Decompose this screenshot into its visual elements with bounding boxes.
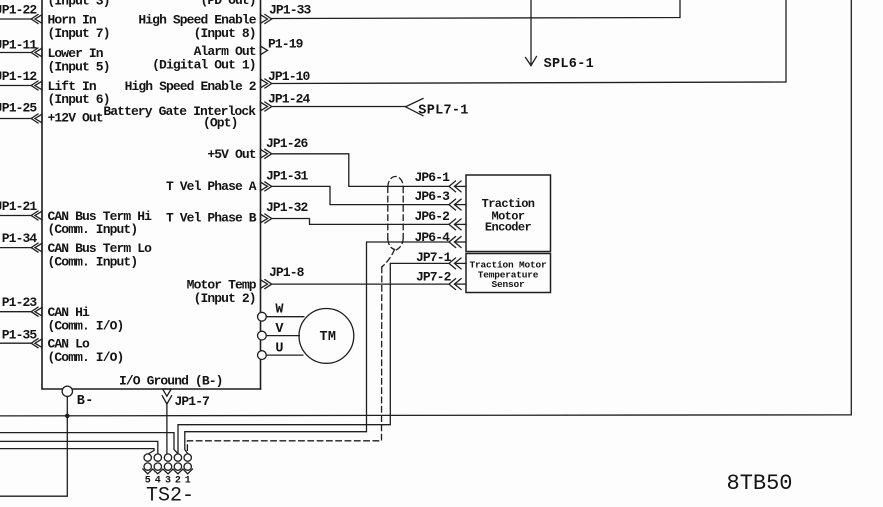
- motor terminal V circle: [258, 331, 267, 340]
- wire I/O ground bus: full-width line y=415.9 up right edge: [0, 0, 851, 416]
- terminal TS2-2: [174, 454, 181, 470]
- svg-text:Motor Temp: Motor Temp: [187, 277, 257, 292]
- svg-text:JP7-1: JP7-1: [416, 250, 452, 265]
- svg-text:(PD Out): (PD Out): [200, 0, 255, 8]
- svg-text:JP6-2: JP6-2: [415, 209, 451, 224]
- wire JP1-7 to TS2-3: [166, 403, 168, 454]
- connector JP6-1 chevrons into encoder: [449, 181, 466, 192]
- svg-text:8TB50: 8TB50: [727, 471, 793, 496]
- svg-text:JP1-12: JP1-12: [0, 69, 37, 84]
- svg-text:(Opt): (Opt): [203, 116, 238, 131]
- svg-text:P1-23: P1-23: [2, 295, 38, 310]
- node JP1-32 (T Vel Phase B) connector and wire jog to JP6-2 row: [261, 214, 450, 224]
- svg-text:T Vel Phase B: T Vel Phase B: [166, 211, 257, 226]
- shield: dashed cable screen oval around JP6 wires: [187, 176, 403, 451]
- svg-text:U: U: [275, 342, 283, 357]
- wire left bus to TS2-2 (y=432.6): [0, 433, 178, 454]
- svg-text:B-: B-: [77, 394, 94, 409]
- terminal TS2-3: [164, 454, 171, 470]
- svg-text:(Digital Out 1): (Digital Out 1): [152, 57, 256, 72]
- svg-text:JP1-33: JP1-33: [269, 3, 312, 18]
- wire SPL6-1 drop from top edge with arrowhead: [526, 0, 537, 66]
- shield dashed drop to TS2-1: [187, 267, 381, 452]
- motor TM circle: [299, 309, 354, 364]
- node JP1-34 (CAN Bus Term Lo) connector: [0, 243, 42, 252]
- svg-text:P1-35: P1-35: [2, 328, 38, 343]
- ground B- node circle on box bottom: [62, 386, 72, 396]
- motor terminal U circle: [258, 351, 267, 360]
- svg-text:Sensor: Sensor: [491, 279, 525, 290]
- wire JP6-4 to TS2-1 (down at x=366, left along y=431.7): [185, 242, 449, 454]
- node JP1-24 (Battery Gate Interlock) connector and wire to SPL7-1: [261, 102, 407, 111]
- svg-text:TS2-: TS2-: [146, 485, 194, 507]
- svg-text:JP1-10: JP1-10: [268, 69, 311, 84]
- wire left bus to TS2-4 (y=441.4): [0, 441, 158, 453]
- connector JP6-4 chevrons into encoder: [449, 237, 466, 248]
- svg-text:JP1-22: JP1-22: [0, 2, 37, 17]
- svg-text:(Input 6): (Input 6): [48, 92, 110, 107]
- svg-text:(Comm. I/O): (Comm. I/O): [48, 350, 124, 365]
- terminal TS2-5: [144, 454, 151, 470]
- node JP1-23 (CAN Hi) connector: [0, 307, 42, 316]
- svg-text:JP1-24: JP1-24: [268, 92, 311, 107]
- svg-text:Encoder: Encoder: [485, 221, 532, 235]
- svg-text:JP1-26: JP1-26: [266, 136, 309, 151]
- svg-text:(Comm. Input): (Comm. Input): [48, 222, 138, 237]
- svg-text:+5V Out: +5V Out: [207, 147, 255, 162]
- shield capsule right side: [402, 187, 404, 238]
- svg-text:(Input 3): (Input 3): [48, 0, 110, 9]
- svg-text:P1-34: P1-34: [2, 231, 38, 246]
- node JP1-22 (Horn In) connector: [0, 15, 42, 24]
- svg-text:JP6-3: JP6-3: [415, 189, 451, 204]
- junction B- bus dot: [65, 414, 70, 419]
- connector JP1-7 (I/O Ground) downward pin on box bottom: [162, 389, 171, 404]
- shield capsule top dome: [388, 176, 403, 187]
- node JP1-8 (Motor Temp) connector and wire straight to JP7-2: [261, 280, 450, 289]
- node JP1-25 (+12V Out) connector: [0, 114, 42, 123]
- encoder box (Traction Motor Encoder): [466, 175, 551, 252]
- shield capsule left side: [387, 187, 389, 239]
- svg-text:W: W: [275, 303, 284, 318]
- svg-text:High Speed Enable 2: High Speed Enable 2: [125, 79, 257, 94]
- svg-text:JP1-8: JP1-8: [269, 265, 305, 280]
- svg-text:(Input 7): (Input 7): [48, 26, 110, 41]
- terminal TS2-4: [154, 454, 161, 470]
- wire B- drop to bottom left: [0, 397, 67, 497]
- node JP1-10 (High Speed Enable 2) connector and wire to top edge: [261, 0, 787, 88]
- svg-text:(Comm. Input): (Comm. Input): [48, 254, 138, 269]
- wire V to motor: [266, 335, 299, 337]
- svg-text:I/O Ground (B-): I/O Ground (B-): [119, 374, 223, 389]
- node JP1-35 (CAN Lo) connector: [0, 339, 42, 348]
- svg-text:JP7-2: JP7-2: [416, 269, 452, 284]
- motor terminal W circle: [258, 312, 267, 321]
- connector JP6-3 chevrons into encoder: [449, 199, 466, 210]
- svg-text:JP1-11: JP1-11: [0, 38, 37, 53]
- node JP1-12 (Lift In) connector: [0, 81, 42, 90]
- wire U to motor: [266, 354, 303, 356]
- connector JP6-2 chevrons into encoder: [449, 219, 466, 230]
- node JP1-21 (CAN Bus Term Hi) connector: [0, 211, 42, 220]
- svg-text:SPL7-1: SPL7-1: [418, 104, 468, 119]
- node JP1-11 (Lower In) connector: [0, 48, 42, 57]
- terminal TS2-1: [184, 454, 191, 470]
- shield neck diagonal: [382, 250, 395, 268]
- node JP1-33 (High Speed Enable) connector and wire to top edge: [261, 0, 681, 24]
- wire left bus to TS2-5 (y=448.6): [0, 449, 154, 454]
- svg-text:(Comm. I/O): (Comm. I/O): [48, 318, 124, 333]
- arrow SPL7-1: [406, 99, 424, 116]
- connector JP7-2 chevrons into temp sensor: [449, 279, 466, 290]
- svg-text:JP1-32: JP1-32: [266, 200, 309, 215]
- svg-text:JP1-21: JP1-21: [0, 199, 37, 214]
- svg-text:JP6-4: JP6-4: [415, 230, 451, 245]
- svg-text:V: V: [275, 322, 284, 337]
- svg-text:TM: TM: [320, 330, 337, 345]
- node JP1-26 (+5V Out) connector and wire jog to JP6-1 row: [261, 149, 450, 186]
- node JP1-31 (T Vel Phase A) connector and wire jog to JP6-3 row: [261, 182, 450, 205]
- svg-text:(Input 5): (Input 5): [48, 59, 110, 74]
- shield capsule bottom taper: [388, 238, 403, 250]
- node P1-19 (Alarm Out) connector: [261, 46, 268, 55]
- svg-text:+12V Out: +12V Out: [48, 111, 103, 126]
- svg-text:SPL6-1: SPL6-1: [544, 57, 594, 72]
- connector JP7-1 chevrons into temp sensor: [449, 258, 466, 269]
- wire W to motor: [266, 316, 304, 318]
- svg-text:P1-19: P1-19: [268, 36, 304, 51]
- terminal strip zigzag base: [143, 469, 193, 474]
- controller box U1 (main access panel, cut off at top): [42, 0, 261, 389]
- svg-text:(Input 8): (Input 8): [194, 26, 256, 41]
- svg-text:(Input 2): (Input 2): [194, 291, 256, 306]
- svg-text:JP1-25: JP1-25: [0, 100, 37, 115]
- svg-text:T Vel Phase A: T Vel Phase A: [166, 179, 257, 194]
- sensor box (Traction Motor Temperature Sensor): [466, 254, 551, 293]
- svg-text:JP6-1: JP6-1: [415, 170, 451, 185]
- svg-text:JP1-31: JP1-31: [266, 168, 309, 183]
- wire JP7-1 to TS2-2 (down at x=390, left along y=424.7): [178, 263, 449, 453]
- svg-text:JP1-7: JP1-7: [175, 394, 210, 409]
